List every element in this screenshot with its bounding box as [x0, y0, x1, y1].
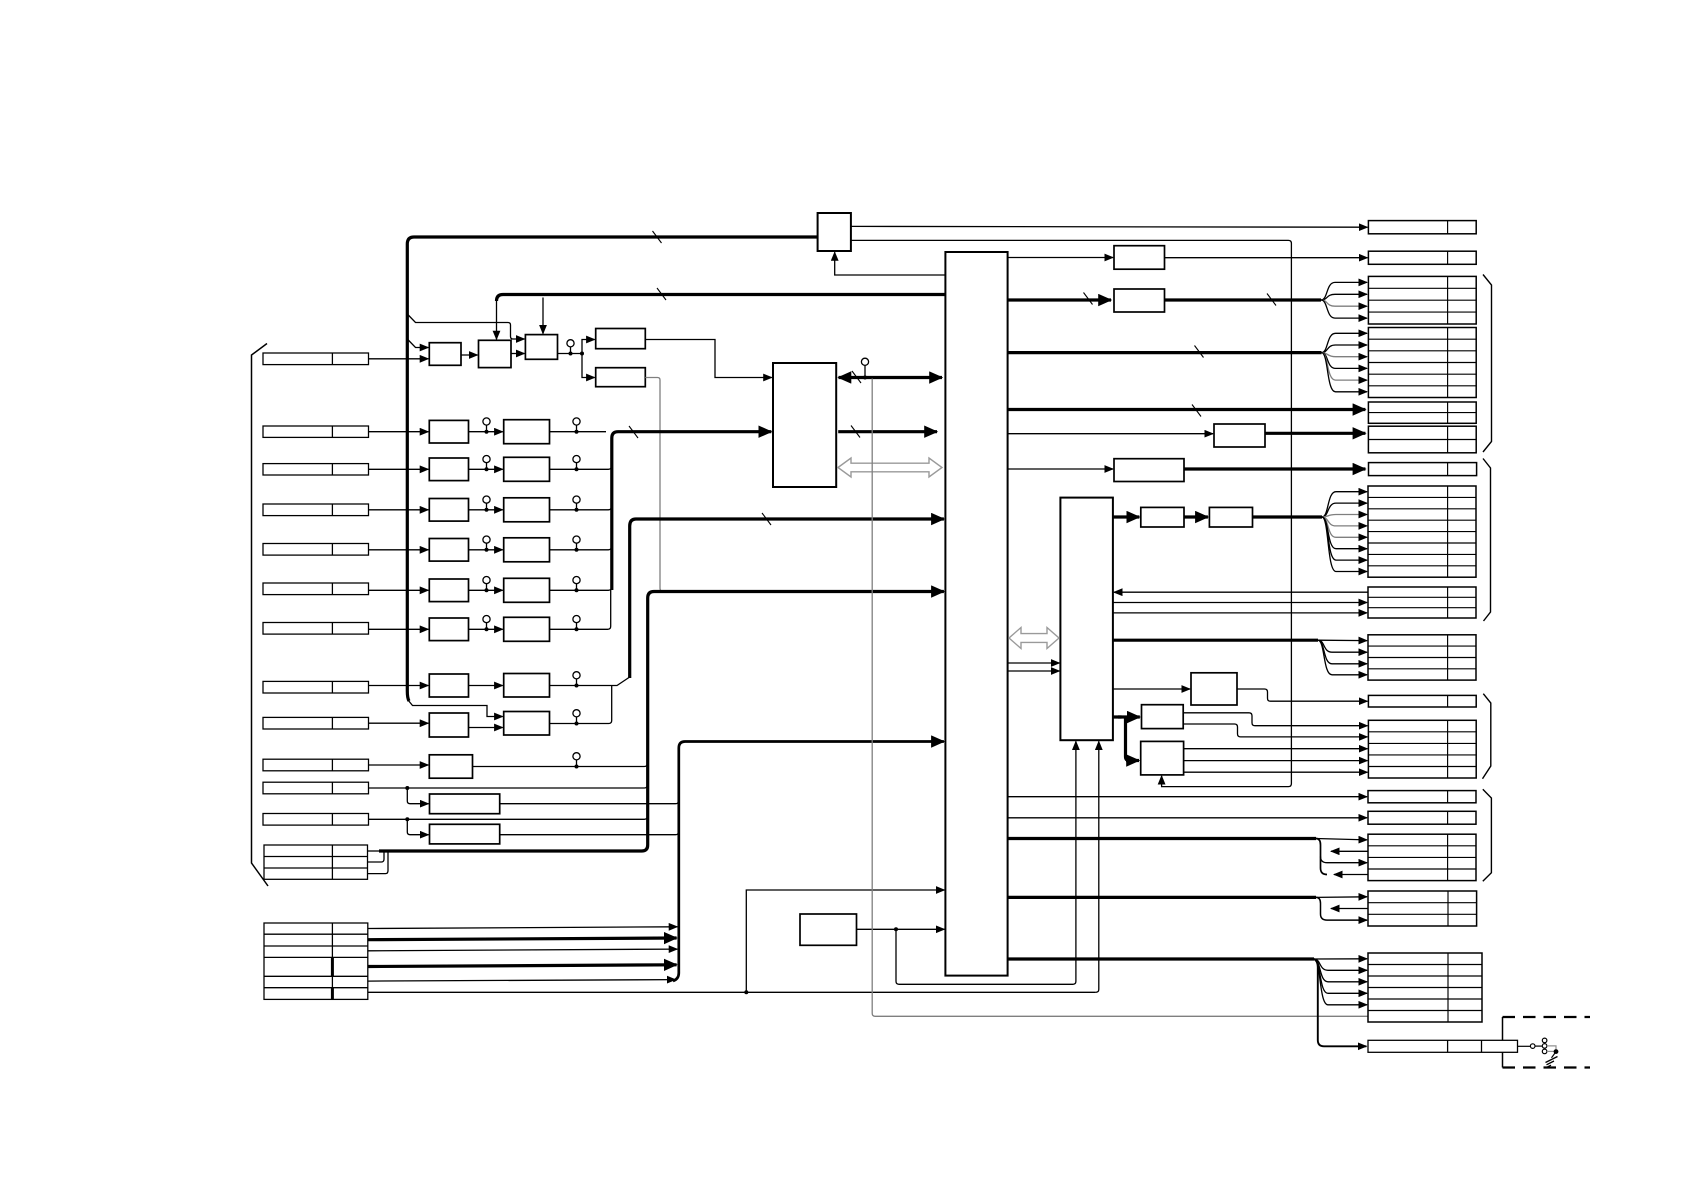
test point TP5b — [573, 577, 580, 584]
box M2 — [1209, 507, 1252, 527]
fan to table T2 — [1322, 333, 1368, 352]
test point on bidirectional bus — [861, 358, 868, 365]
bus A branch to B3 upper input — [407, 314, 524, 339]
wire row4 merge bus1 — [550, 547, 612, 550]
node J11 branch — [405, 786, 409, 790]
wire table T7 row1 to U2 — [1114, 591, 1368, 593]
wire U1 to U2 a — [1008, 662, 1060, 664]
filter box F4a — [429, 539, 468, 562]
bus A slash — [653, 231, 662, 243]
table T8 — [1368, 635, 1476, 680]
connector J12 — [263, 814, 369, 826]
filter box F8b — [504, 712, 550, 736]
bus U1 to fan T13 (thick) — [1008, 837, 1316, 840]
test point TP2a — [483, 456, 490, 463]
wire F10 output merge bus4 — [500, 801, 679, 804]
wire U1 to K4 — [1008, 468, 1113, 470]
table T11 — [1368, 791, 1476, 803]
wire J6 to filter — [369, 589, 429, 591]
wire J1 to B1 — [369, 358, 429, 360]
connector J2 — [263, 426, 369, 437]
box A output slash — [851, 426, 860, 438]
box B4b — [596, 368, 646, 387]
table T3 — [1368, 402, 1476, 423]
bus 1 (row mux to box A) — [612, 432, 772, 590]
box K3 — [1214, 424, 1265, 447]
box A (display controller) — [773, 363, 836, 487]
inner block U2 — [1060, 498, 1113, 741]
bus U2 to fan T8 (thick) — [1113, 639, 1318, 642]
bus T2 slash — [1195, 346, 1204, 358]
wire row3 merge bus1 — [550, 507, 612, 510]
filter box F5a — [429, 579, 468, 602]
bus A tail into row J9 filter — [408, 700, 503, 717]
bus U1 to fan TB (thick) — [1008, 957, 1314, 960]
box K1 — [1114, 246, 1165, 270]
wire U1 to K3 — [1008, 433, 1213, 435]
connector CN1 — [1368, 221, 1476, 234]
test point TP4b — [573, 536, 580, 543]
filter box F1a — [429, 420, 468, 443]
box K2 — [1114, 289, 1165, 312]
wire U1 to table T12 — [1008, 817, 1367, 819]
wire J3 to filter — [369, 468, 429, 470]
wire row2 merge bus1 — [550, 466, 612, 469]
box M3 — [1191, 673, 1237, 705]
grey wide arrow box A - U1 — [838, 458, 942, 477]
node box S branch — [894, 927, 898, 931]
table T2 — [1368, 328, 1476, 398]
wire box T output 2 (riser) — [851, 240, 1292, 786]
central block U1 (main IC) — [945, 252, 1007, 976]
brace right III — [1483, 694, 1491, 779]
wire row6 riser to bus1 — [550, 589, 611, 629]
table T4 — [1368, 426, 1476, 453]
wire J11 main merge bus3 — [369, 787, 406, 789]
wire row7 to bus2 diagonal — [550, 677, 630, 686]
table T7 — [1368, 587, 1476, 618]
wire row8 riser join row7 — [550, 686, 612, 724]
filter box F8a — [429, 713, 468, 737]
wire J9 to filter — [369, 722, 429, 724]
box M4 — [1142, 705, 1184, 729]
bus B trunk — [497, 295, 946, 302]
test point TP8b — [573, 710, 580, 717]
wire to connector CN-C — [1314, 959, 1366, 1046]
grey wide arrow U1 - U2 — [1009, 628, 1059, 649]
table TA — [1368, 891, 1477, 926]
wire J14 row4 to bus4 (thick) — [368, 965, 677, 967]
bus K2 slash left — [1084, 293, 1093, 305]
bus K2 slash right — [1267, 294, 1276, 306]
bus K3 to table T4 (thick) — [1265, 432, 1365, 435]
test point TP1b — [573, 418, 580, 425]
test point TP2b — [573, 456, 580, 463]
wire M4 to T10 row1 — [1183, 713, 1367, 726]
table T9 — [1368, 695, 1476, 707]
table T6 — [1368, 486, 1476, 577]
fan to table TA (bidirectional) — [1316, 896, 1367, 899]
wire J2 to filter — [369, 431, 429, 433]
bus B slash — [657, 288, 666, 300]
wire box S to central block — [857, 928, 945, 930]
connector J3 — [263, 464, 369, 475]
wire J14 row3 to bus4 — [368, 949, 678, 951]
box T (top interface) — [818, 213, 851, 251]
bidirectional bus slash — [852, 371, 861, 383]
wire box S branch to inner block — [896, 741, 1076, 984]
connector J5 — [263, 544, 369, 556]
wire line-F riser to central block — [746, 890, 944, 992]
wire J14 row2 to bus4 (thick) — [368, 938, 677, 940]
test point TP6b — [573, 616, 580, 623]
signal chain box B3 — [525, 335, 557, 360]
bus 2 (to central block) — [630, 519, 944, 678]
ground symbol — [1552, 1052, 1557, 1058]
connector J1 — [263, 353, 369, 365]
bus U2 to M4/M5 (thick) — [1113, 717, 1132, 761]
filter box F4b — [504, 538, 550, 562]
wire M5 to T10 row4 — [1184, 760, 1368, 762]
wire M3 to table T9 — [1237, 689, 1367, 701]
wire U1 to U2 b — [1008, 670, 1060, 672]
wire U1 to box T (feedback) — [835, 252, 946, 275]
wire J13 row1 stub — [368, 850, 381, 852]
wire F9 merge bus3 — [473, 764, 648, 767]
brace right II — [1483, 459, 1491, 622]
wire J12 branch to F11 — [407, 819, 428, 834]
wire U1 to table T11 — [1008, 796, 1367, 798]
bus M2 to fan T6 (thick) — [1253, 515, 1323, 518]
box B4a — [596, 329, 646, 349]
fan to table T13 (bidirectional) — [1316, 839, 1367, 840]
fan to table TB — [1314, 958, 1367, 960]
wire J14 row1 to bus4 — [368, 927, 678, 929]
filter box F7b — [504, 674, 550, 698]
wire line-F riser to inner block — [1096, 741, 1099, 992]
filter box F5b — [504, 578, 550, 602]
wire J12 main merge bus3 — [369, 818, 406, 820]
fan to table T8 — [1318, 639, 1367, 641]
switch contacts — [1518, 1045, 1531, 1047]
connector CN2 — [1368, 251, 1476, 264]
bidirectional bus box A - U1 — [839, 376, 943, 379]
wire J4 to filter — [369, 509, 429, 511]
bus U1 to table T3 (thick) — [1008, 408, 1366, 411]
table T5 — [1369, 463, 1477, 476]
wire F8a to F8b — [469, 727, 503, 729]
wire U2 to table T7 row2 — [1113, 602, 1367, 604]
filter box F7a — [429, 674, 468, 697]
box K4 — [1114, 459, 1184, 482]
wire F11 output merge bus4 — [500, 832, 679, 835]
connector J4 — [263, 504, 369, 516]
wire J14 row6 trunk — [368, 991, 1096, 993]
filter box F2a — [429, 458, 468, 481]
connector J6 — [263, 583, 369, 595]
wire M4 to T10 row2 — [1183, 724, 1367, 737]
wire F7a to F7b — [469, 685, 503, 687]
node line-F branch — [744, 990, 748, 994]
filter box F6a — [429, 618, 468, 641]
connector J11 — [263, 782, 369, 794]
connector CN-C — [1368, 1040, 1518, 1052]
bus K2 to fan T1 — [1165, 298, 1322, 301]
connector J10 — [263, 759, 369, 771]
wire B4a to box A — [645, 340, 772, 378]
wire U1 to K1 — [1008, 257, 1113, 259]
wire row1 into bus1 corner — [550, 431, 607, 433]
filter box F3b — [504, 498, 550, 522]
test point TP3b — [573, 496, 580, 503]
grey trace to table B row6 — [872, 379, 1368, 1017]
connector J8 — [263, 681, 369, 693]
box M5 — [1141, 741, 1184, 775]
test point TP5a — [483, 577, 490, 584]
connector J14 (6-row) — [264, 923, 368, 999]
wire box A output to U1 — [838, 430, 937, 433]
signal chain box B1 — [429, 343, 461, 366]
connector J7 — [263, 623, 369, 635]
test point TP6a — [483, 616, 490, 623]
bus 3 (to central block) — [379, 592, 944, 852]
wire U2 to M3 — [1113, 688, 1190, 690]
wire B4b down (grey) join bus3 — [645, 378, 663, 592]
brace right IV — [1483, 789, 1492, 881]
box S — [800, 914, 857, 945]
wire B3 output with test point — [558, 353, 583, 355]
wire F6a to F6b — [469, 628, 503, 630]
wire B2 to B3 — [511, 353, 524, 355]
wire M5 to T10 row3 — [1184, 748, 1368, 750]
bus M1 to M2 (thick) — [1184, 515, 1208, 518]
wire to B4b — [582, 354, 595, 378]
wire B1 to B2 — [461, 354, 478, 356]
wire U2 to table T7 row3 — [1113, 612, 1367, 614]
bus U1 to K2 (thick) — [1008, 298, 1111, 301]
bus A branch to B1 upper input — [407, 339, 428, 348]
bus 2 slash — [762, 513, 771, 525]
fan to table T6 — [1322, 492, 1367, 517]
left input bracket — [252, 344, 269, 887]
bus K4 to table T5 (thick) — [1184, 467, 1365, 470]
bus U1 to fan T2 (thick) — [1008, 351, 1322, 354]
filter box F6b — [504, 617, 550, 641]
wire J14 row5 to bus4 — [368, 980, 676, 982]
bus 4 (to central block) — [673, 742, 944, 982]
connector J9 — [263, 717, 369, 729]
wire F2a to F2b — [469, 468, 503, 470]
box M1 — [1141, 507, 1184, 527]
table T10 — [1368, 720, 1476, 778]
wire row5 merge bus1 — [550, 587, 612, 590]
connector J13 (3-row) — [264, 845, 368, 879]
bus U1 to fan TA (thick) — [1008, 896, 1316, 899]
wire J11 branch to F10 — [407, 788, 428, 804]
wire J5 to filter — [369, 549, 429, 551]
table T12 — [1368, 811, 1476, 824]
table T13 — [1368, 834, 1476, 880]
bus T3 slash — [1192, 405, 1201, 417]
wire F4a to F4b — [469, 549, 503, 551]
test point TP1a — [483, 418, 490, 425]
filter box F2b — [504, 457, 550, 481]
node split to B4a/B4b — [580, 352, 584, 356]
bus U2 to M1 (thick) — [1113, 515, 1139, 518]
wire F5a to F5b — [469, 589, 503, 591]
bus B drop to B3 top — [542, 298, 544, 334]
fan to table T1 — [1321, 282, 1367, 300]
filter box F3a — [429, 499, 468, 522]
test point TP3a — [483, 496, 490, 503]
table T1 — [1368, 276, 1476, 324]
wire F1a to F1b — [469, 431, 503, 433]
wire J10 to filter F9 — [369, 764, 429, 766]
wire J8 to filter — [369, 685, 429, 687]
signal chain box B2 — [479, 340, 512, 367]
test point TP9 — [573, 753, 580, 760]
wire J13 row3 merge — [368, 852, 389, 874]
filter box F1b — [504, 420, 550, 444]
dashed enclosure — [1503, 1016, 1591, 1018]
filter box F11 (wide) — [430, 824, 500, 844]
test point TP7b — [573, 672, 580, 679]
bus B drop to B2 top — [496, 300, 498, 339]
brace right I — [1483, 275, 1492, 453]
wire K1 to CN2 — [1165, 257, 1368, 259]
wire M5 to T10 row5 — [1184, 771, 1368, 773]
wire to B4a — [582, 340, 595, 354]
wire box T output 1 to CN1 — [851, 225, 1368, 228]
wire J13 row2 merge — [368, 852, 385, 862]
test point TP4a — [483, 536, 490, 543]
bus 1 slash — [629, 426, 638, 438]
node J12 branch — [405, 817, 409, 821]
filter box F9 — [429, 755, 472, 778]
wire J7 to filter — [369, 628, 429, 630]
filter box F10 (wide) — [430, 794, 500, 814]
bus A trunk (connector area to box T) — [407, 237, 817, 701]
table TB — [1368, 953, 1482, 1022]
wire F3a to F3b — [469, 509, 503, 511]
